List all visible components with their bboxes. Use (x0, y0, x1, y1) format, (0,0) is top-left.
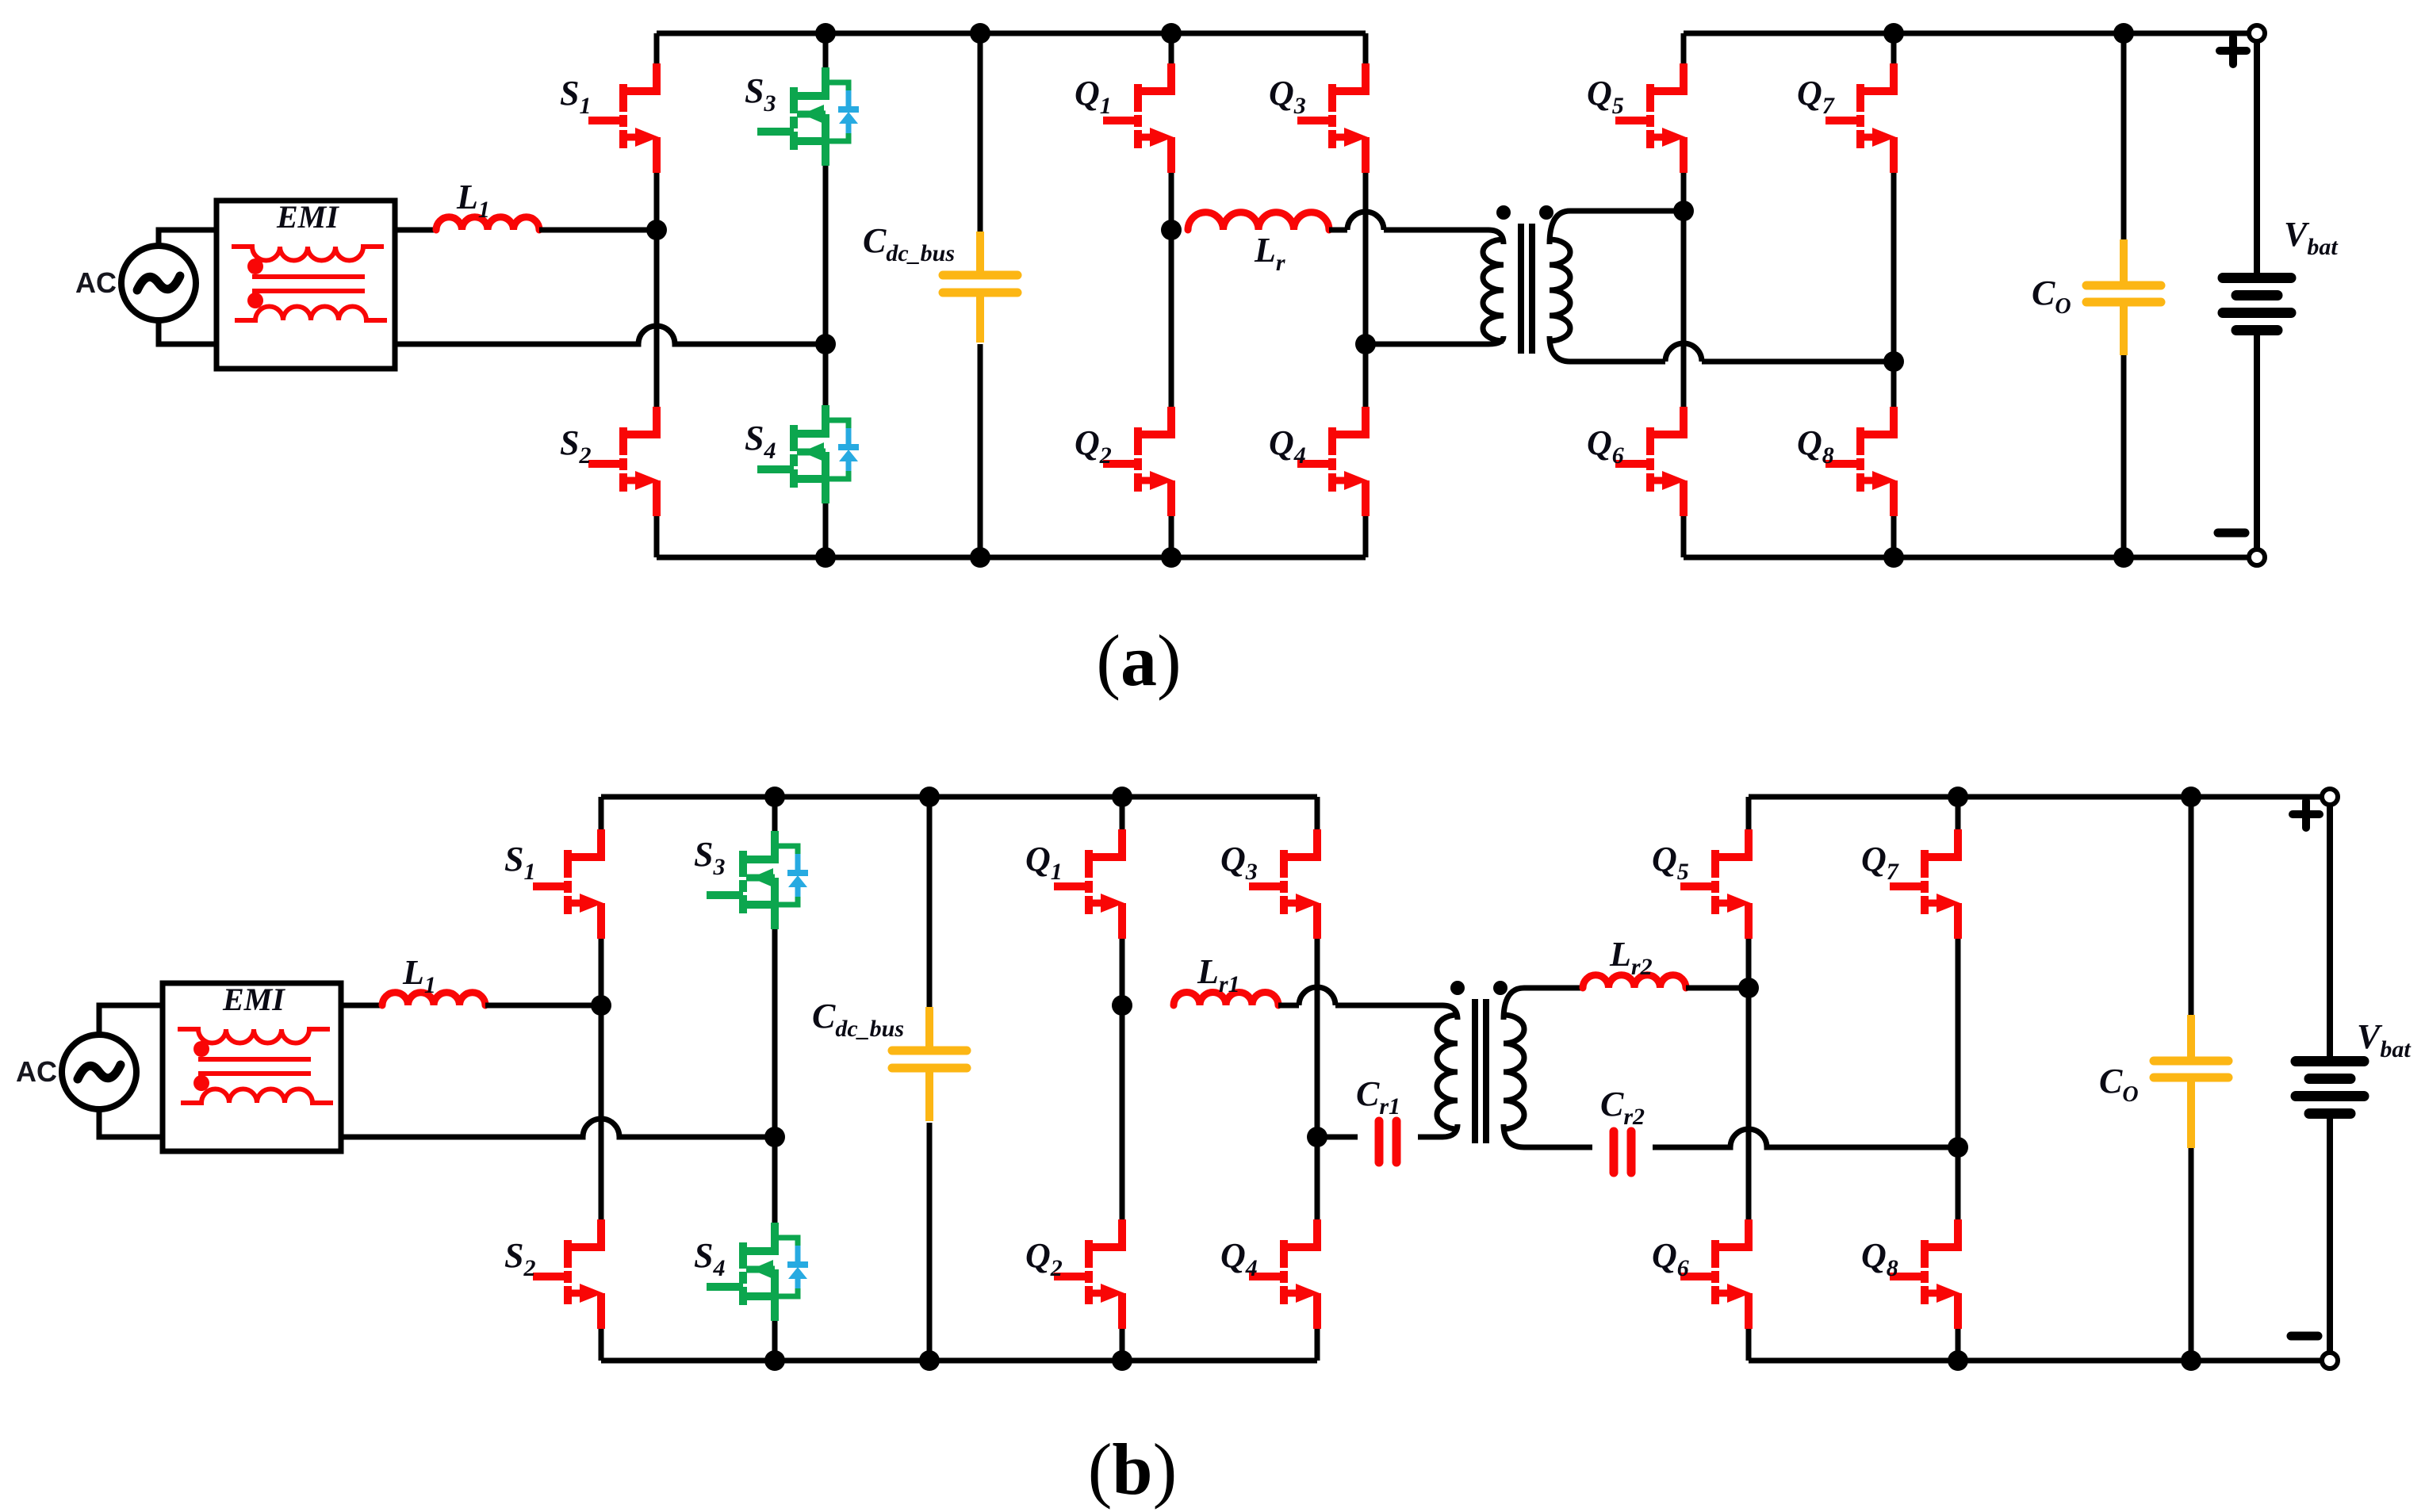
inductor L1 (a) (436, 217, 539, 230)
node PFC input (b) (591, 995, 611, 1016)
battery Vbat (a) (2223, 41, 2291, 549)
node top rail Cdc (a) (970, 23, 990, 44)
transformer primary phase dot (b) (1450, 981, 1465, 995)
wire Co leg (b) (2189, 797, 2194, 1015)
EMI filter block (b) (163, 983, 341, 1151)
transistor Q3 (b) (1249, 829, 1320, 939)
wire L1 to PFC node (a) (539, 228, 657, 233)
battery + terminal (b) (2322, 789, 2338, 805)
wire secondary bottom right (b) (1653, 1129, 1958, 1147)
capacitor Cr1 (b) (1379, 1121, 1396, 1162)
transistor Q1 (b) (1054, 829, 1124, 939)
battery - terminal (b) (2322, 1353, 2338, 1368)
node Q1/Q2 midpoint (b) (1112, 995, 1132, 1016)
transistor Q4 (b) (1249, 1219, 1320, 1329)
wire top rail right (b) (1749, 794, 2330, 800)
node top rail Co (b) (2181, 787, 2201, 807)
node bottom rail S3 (b) (764, 1350, 785, 1371)
node Q7/Q8 midpoint (b) (1948, 1137, 1968, 1158)
node Q3/Q4 midpoint (b) (1307, 1127, 1327, 1147)
transformer core (b) (1472, 999, 1478, 1143)
node top rail S3 (b) (764, 787, 785, 807)
capacitor Cr2 (b) (1614, 1131, 1631, 1173)
capacitor Co (b) (2154, 1015, 2228, 1148)
node PFC input (a) (646, 220, 667, 240)
node bottom rail Co (b) (2181, 1350, 2201, 1371)
inductor Lr1 (b) (1174, 993, 1278, 1006)
transistor Q5 (b) (1680, 829, 1751, 939)
transformer secondary phase dot (a) (1539, 205, 1553, 220)
node Q3/Q4 midpoint (a) (1355, 334, 1376, 354)
wire primary bottom right (b) (1418, 1124, 1458, 1137)
transistor S4 (b) (707, 1223, 808, 1321)
wire Q7/Q8 leg (b) (1956, 797, 1961, 829)
node S3/S4 midpoint (a) (815, 334, 836, 354)
wire Cdc_bus leg (a) (978, 33, 983, 232)
transformer secondary winding (a) (1550, 239, 1570, 341)
svg-text:EMI: EMI (276, 199, 339, 235)
node bottom rail Q1 (a) (1161, 547, 1182, 568)
wire Cdc_bus leg (b) (927, 797, 933, 1007)
node top rail Q7 (a) (1883, 23, 1904, 44)
inductor Lr2 (b) (1583, 975, 1686, 988)
wire S1/S2 leg (b) (599, 797, 604, 829)
battery - terminal (a) (2249, 549, 2265, 565)
wire secondary bottom (a) (1550, 336, 1665, 362)
inductor Lr (a) (1188, 212, 1329, 230)
wire Q5/Q6 leg (a) (1681, 33, 1687, 63)
transformer secondary winding (b) (1504, 1015, 1524, 1129)
node top rail Co (a) (2113, 23, 2134, 44)
transistor Q6 (a) (1615, 407, 1686, 516)
wire top rail left (b) (601, 794, 1317, 800)
wire bottom rail left (b) (601, 1358, 1317, 1364)
transistor Q2 (a) (1103, 407, 1174, 516)
transistor S2 (b) (533, 1219, 603, 1329)
transformer primary winding (a) (1483, 239, 1504, 341)
wire secondary top right (b) (1686, 986, 1749, 991)
EMI filter block (a) (216, 201, 395, 369)
wire EMI return to S3/S4 node (a) (395, 326, 826, 344)
wire Q3/Q4 leg (a) (1363, 33, 1369, 63)
wire primary top (b) (1278, 1003, 1299, 1009)
wire secondary top (a) (1550, 211, 1684, 244)
node top rail Q1 (a) (1161, 23, 1182, 44)
node bottom rail Cdc (b) (919, 1350, 940, 1371)
node bottom rail Q7 (b) (1948, 1350, 1968, 1371)
battery + terminal (a) (2249, 25, 2265, 41)
transistor Q8 (a) (1825, 407, 1896, 516)
transformer primary winding (b) (1437, 1015, 1458, 1129)
svg-text:(a): (a) (1096, 620, 1181, 701)
node bottom rail S3 (a) (815, 547, 836, 568)
wire secondary bottom left (b) (1504, 1124, 1592, 1147)
node Q5/Q6 midpoint (a) (1673, 201, 1694, 221)
wire bottom rail left (a) (657, 555, 1366, 561)
battery Vbat (b) (2296, 805, 2364, 1353)
transistor S3 (b) (707, 831, 808, 929)
wire EMI output top (a) (395, 228, 436, 233)
minus sign (a) (2218, 529, 2245, 538)
node top rail Q7 (b) (1948, 787, 1968, 807)
wire EMI return to S3/S4 node (b) (341, 1119, 775, 1137)
svg-text:(b): (b) (1088, 1429, 1177, 1510)
transformer secondary phase dot (b) (1493, 981, 1507, 995)
wire S3/S4 leg (b) (772, 797, 778, 831)
wire AC to EMI bottom (b) (99, 1109, 163, 1137)
node Q7/Q8 midpoint (a) (1883, 351, 1904, 372)
wire S1/S2 leg (a) (654, 33, 660, 63)
transistor Q6 (b) (1680, 1219, 1751, 1329)
transformer core (a) (1518, 224, 1524, 354)
node top rail Q1 (b) (1112, 787, 1132, 807)
wire Q3/Q4 leg (b) (1315, 797, 1320, 829)
wire AC to EMI top (a) (159, 230, 216, 246)
node bottom rail Cdc (a) (970, 547, 990, 568)
node bottom rail Q7 (a) (1883, 547, 1904, 568)
wire Co leg (a) (2121, 33, 2127, 239)
node bottom rail Q1 (b) (1112, 1350, 1132, 1371)
node S3/S4 midpoint (b) (764, 1127, 785, 1147)
wire top rail left (a) (657, 31, 1366, 36)
wire primary bottom (a) (1366, 336, 1504, 344)
wire Q5/Q6 leg (b) (1746, 797, 1752, 829)
wire S3/S4 leg (a) (823, 33, 829, 67)
transistor Q2 (b) (1054, 1219, 1124, 1329)
AC source (a) (121, 246, 196, 320)
transistor S1 (a) (588, 63, 659, 173)
svg-text:EMI: EMI (222, 982, 285, 1017)
transformer primary phase dot (a) (1496, 205, 1511, 220)
svg-text:AC: AC (16, 1055, 57, 1088)
transistor Q8 (b) (1890, 1219, 1960, 1329)
transistor S3 (a) (757, 67, 859, 166)
wire Q1/Q2 leg (a) (1169, 33, 1174, 63)
wire primary bottom left (b) (1317, 1135, 1358, 1140)
transistor Q3 (a) (1297, 63, 1368, 173)
plus sign (a) (2220, 37, 2247, 64)
transistor S1 (b) (533, 829, 603, 939)
transistor Q4 (a) (1297, 407, 1368, 516)
wire primary top (a) (1329, 228, 1347, 233)
capacitor Co (a) (2086, 239, 2161, 355)
node bottom rail Co (a) (2113, 547, 2134, 568)
wire secondary top left (b) (1504, 988, 1583, 1020)
wire Q1/Q2 leg (b) (1120, 797, 1125, 829)
transistor S2 (a) (588, 407, 659, 516)
wire L1 to PFC node (b) (485, 1003, 601, 1009)
transistor Q1 (a) (1103, 63, 1174, 173)
node top rail S3 (a) (815, 23, 836, 44)
capacitor Cdc_bus (b) (892, 1007, 967, 1121)
transistor Q5 (a) (1615, 63, 1686, 173)
plus sign (b) (2293, 801, 2320, 828)
capacitor Cdc_bus (a) (943, 232, 1017, 343)
inductor L1 (b) (382, 993, 485, 1005)
wire AC to EMI top (b) (99, 1005, 163, 1035)
minus sign (b) (2291, 1332, 2318, 1341)
node Q1/Q2 midpoint (a) (1161, 220, 1182, 240)
wire EMI output top (b) (341, 1003, 382, 1009)
transistor Q7 (b) (1890, 829, 1960, 939)
AC source (b) (62, 1035, 136, 1109)
svg-text:AC: AC (75, 266, 117, 299)
wire bottom rail right (b) (1749, 1358, 2330, 1364)
wire AC to EMI bottom (a) (159, 320, 216, 344)
transistor S4 (a) (757, 405, 859, 503)
wire Q7/Q8 leg (a) (1891, 33, 1897, 63)
transistor Q7 (a) (1825, 63, 1896, 173)
node Q5/Q6 midpoint (b) (1738, 978, 1759, 998)
wire bottom rail right (a) (1684, 555, 2257, 561)
node top rail Cdc (b) (919, 787, 940, 807)
wire top rail right (a) (1684, 31, 2257, 36)
